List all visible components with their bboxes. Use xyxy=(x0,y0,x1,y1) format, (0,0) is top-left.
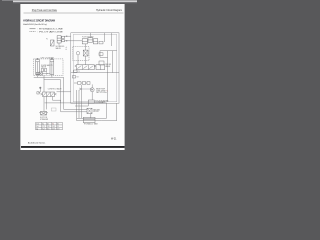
main valve inner box xyxy=(73,34,117,101)
wire solenoid to main box upper xyxy=(65,35,71,37)
lift cylinder 2 piston xyxy=(50,62,54,75)
svg-text:Hydraulic Circuit Diagram: Hydraulic Circuit Diagram xyxy=(96,9,122,12)
directional valve assembly right xyxy=(96,65,105,70)
safety valve chain X box xyxy=(39,72,42,75)
return line C xyxy=(61,111,87,113)
return line A xyxy=(45,102,107,104)
return filter box xyxy=(87,108,92,113)
solenoid valve block body xyxy=(57,36,61,43)
main pump circle xyxy=(90,88,94,92)
pilot valve box xyxy=(83,50,88,56)
safety valve chain small rect xyxy=(36,72,39,74)
svg-text:3.2: 3.2 xyxy=(42,128,44,130)
page left edge shadow xyxy=(19,4,22,150)
valve assembly end springs xyxy=(75,65,96,67)
left return riser 2 xyxy=(63,78,65,110)
solenoid actuator box lower xyxy=(62,40,65,42)
svg-text:: HYDRAULIC LINE: : HYDRAULIC LINE xyxy=(37,28,63,31)
spool spring right xyxy=(55,93,57,95)
svg-text:Model AC50D-5D (Serial No.1001: Model AC50D-5D (Serial No.1001 up) xyxy=(23,23,47,26)
priority valve box 1 xyxy=(78,82,81,85)
white page xyxy=(21,4,125,150)
main valve outer box xyxy=(71,33,119,104)
small note box xyxy=(51,108,56,111)
top cluster mid box xyxy=(88,38,93,43)
line valve drain elbow xyxy=(53,97,61,103)
tank internal line xyxy=(83,119,95,121)
legend solid line symbol xyxy=(30,28,36,30)
valve to main box line xyxy=(57,91,71,93)
right column vertical line A xyxy=(104,33,106,42)
pilot connector lines down to valves xyxy=(78,55,86,65)
svg-text:AC50D-5D Series: AC50D-5D Series xyxy=(28,141,46,144)
svg-text:2.8: 2.8 xyxy=(52,128,54,130)
svg-text:kg: kg xyxy=(36,128,38,130)
wire cluster to pilot X box xyxy=(85,44,87,50)
background gray xyxy=(0,0,150,150)
pilot dashed box xyxy=(73,47,89,61)
svg-text:a1: a1 xyxy=(66,47,68,49)
right column small comp 3 xyxy=(99,61,104,65)
svg-text:: PILOT AIR LINE: : PILOT AIR LINE xyxy=(37,30,63,33)
lift cylinder 1 body xyxy=(36,60,40,75)
pump triangle xyxy=(92,89,94,91)
svg-text:Shop Trade and Cost Data: Shop Trade and Cost Data xyxy=(32,9,58,12)
priority valve box 3 xyxy=(87,82,90,85)
return line B xyxy=(64,108,87,110)
line valve to strainer xyxy=(44,97,47,112)
svg-text:1.9: 1.9 xyxy=(57,128,59,130)
pilot valve X xyxy=(83,50,88,56)
lift cylinder 1 rod stub xyxy=(37,58,39,59)
spool dividers xyxy=(47,92,51,97)
top cluster internal marks xyxy=(82,40,98,41)
top cluster left box xyxy=(82,39,87,44)
strainer side wings xyxy=(39,112,48,114)
control lever pivot xyxy=(37,92,39,94)
spool arrows xyxy=(43,93,54,96)
control lever knob xyxy=(40,87,42,89)
check valve before pump xyxy=(79,88,92,90)
right column small comp 2 xyxy=(99,53,103,56)
solenoid coil diagonal xyxy=(51,40,55,46)
safety valve chain X marks xyxy=(39,72,50,75)
right column vertical line B xyxy=(111,33,113,46)
strainer X xyxy=(41,112,47,116)
svg-text:SUCTION: SUCTION xyxy=(40,117,48,119)
footer rule xyxy=(21,146,125,148)
suction strainer box xyxy=(41,112,47,116)
svg-text:FILTER: FILTER xyxy=(93,111,99,113)
small port box on left edge xyxy=(74,70,77,72)
right column small comp 1 xyxy=(99,41,103,44)
svg-text:W-21: W-21 xyxy=(111,139,117,141)
mid risers xyxy=(77,85,82,121)
svg-text:P2: P2 xyxy=(46,39,48,41)
spec table grid xyxy=(36,122,63,129)
right column divider B xyxy=(112,51,114,73)
lift cylinder dashed box xyxy=(34,59,64,76)
spool spring left xyxy=(41,93,43,95)
svg-text:b1: b1 xyxy=(66,49,68,51)
valve assembly dividers xyxy=(82,65,88,70)
long line below valves xyxy=(71,72,119,74)
svg-text:3.5: 3.5 xyxy=(47,128,49,130)
top light strip xyxy=(13,0,137,2)
wire arrowhead upper xyxy=(67,36,68,37)
svg-text:LIFT CYLINDER: LIFT CYLINDER xyxy=(41,58,55,60)
svg-text:CONTROL VALVE: CONTROL VALVE xyxy=(48,87,63,90)
down safety valve box xyxy=(41,68,46,71)
control lever rod xyxy=(38,89,40,93)
right column inner partition xyxy=(100,51,117,58)
solenoid valve block section lines xyxy=(57,38,61,41)
wire below solenoid block xyxy=(58,43,60,46)
valve right divider xyxy=(99,65,101,70)
wire solenoid to main box lower xyxy=(65,40,71,42)
return filter drain xyxy=(90,114,92,119)
cylinder connect lines xyxy=(34,72,64,92)
down safety valve circle xyxy=(43,69,45,71)
control valve spool box xyxy=(43,92,55,97)
bottom return line lower xyxy=(77,120,102,122)
right edge return riser xyxy=(102,103,117,120)
svg-text:B1: B1 xyxy=(52,124,54,126)
solenoid actuator box upper xyxy=(62,36,65,38)
top cluster right box xyxy=(93,39,98,44)
priority valve connecting line xyxy=(74,82,87,84)
return filter X xyxy=(87,108,92,113)
wire arrowhead lower xyxy=(67,40,68,41)
bottom right riser xyxy=(106,103,108,118)
header rule xyxy=(24,12,124,14)
left return riser 1 xyxy=(60,80,62,112)
lift cylinder 2 rod stub xyxy=(51,58,53,59)
right column long divider xyxy=(107,51,109,102)
bottom return line upper xyxy=(77,117,107,119)
suction line from tank xyxy=(75,103,88,106)
svg-text:TILT: TILT xyxy=(76,77,79,79)
svg-text:FLOW DIVIDER: FLOW DIVIDER xyxy=(82,36,94,38)
legend dashed line symbol xyxy=(30,30,36,32)
priority valve box 2 xyxy=(82,82,85,85)
svg-text:RETURN: RETURN xyxy=(93,109,100,111)
suction filter box xyxy=(88,100,94,103)
svg-text:VALVE: VALVE xyxy=(56,47,62,50)
pump discharge line xyxy=(91,84,93,87)
header left underline xyxy=(32,11,57,13)
lift cylinder 1 piston xyxy=(36,62,40,75)
svg-text:RELIEF: RELIEF xyxy=(105,64,111,66)
directional valve assembly left xyxy=(76,65,94,70)
wire top edge to cluster xyxy=(89,33,91,38)
pilot circle xyxy=(76,52,79,55)
valve assembly arrows xyxy=(77,66,93,69)
solenoid coil box xyxy=(51,40,55,46)
lift cylinder 2 body xyxy=(50,60,54,75)
pump suction line xyxy=(91,92,93,100)
svg-text:P1: P1 xyxy=(78,71,80,73)
svg-text:HYDRAULIC CIRCUIT DIAGRAM: HYDRAULIC CIRCUIT DIAGRAM xyxy=(23,18,55,22)
wire solenoid signal to cluster xyxy=(71,40,82,42)
oil tank box xyxy=(83,117,95,122)
svg-text:B2: B2 xyxy=(57,124,59,126)
check valve c box xyxy=(72,76,75,78)
